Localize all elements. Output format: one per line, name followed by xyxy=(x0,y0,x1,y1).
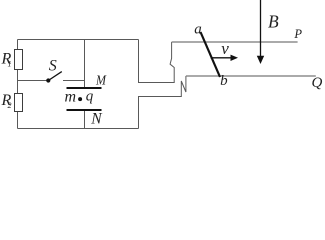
svg-text:B: B xyxy=(268,12,279,32)
svg-text:S: S xyxy=(49,57,57,74)
svg-text:m: m xyxy=(65,88,77,105)
svg-text:2: 2 xyxy=(8,101,12,110)
svg-text:P: P xyxy=(293,27,302,41)
svg-text:v: v xyxy=(221,39,229,58)
svg-text:b: b xyxy=(220,73,228,89)
svg-text:M: M xyxy=(95,73,107,88)
svg-text:q: q xyxy=(86,89,94,105)
svg-text:Q: Q xyxy=(312,75,323,91)
svg-text:a: a xyxy=(194,22,202,38)
svg-text:1: 1 xyxy=(8,59,12,68)
svg-text:N: N xyxy=(90,111,103,128)
